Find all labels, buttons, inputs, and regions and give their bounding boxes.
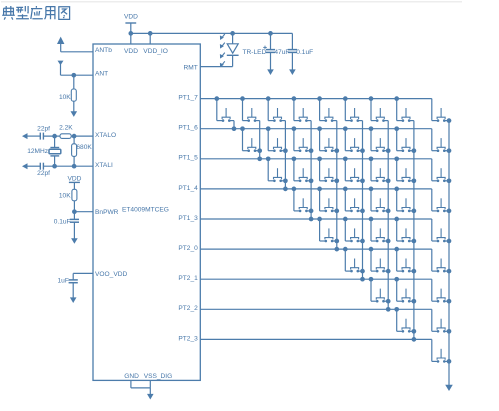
resistor R 680K [72, 134, 77, 169]
svg-text:PT1_6: PT1_6 [178, 125, 198, 132]
switch PT1_3 to common column [432, 228, 449, 242]
wire VDD_IO pin stub [149, 33, 151, 44]
switch PT1_3 to PT2_0 [317, 217, 337, 243]
switch PT1_5 to PT2_3 [394, 156, 414, 182]
svg-text:XTALI: XTALI [95, 162, 113, 169]
wire ANT [61, 74, 94, 76]
switch PT1_6 to common column [432, 138, 449, 152]
switch PT1_6 to PT1_3 [292, 126, 312, 152]
svg-text:ET4009MTCEG: ET4009MTCEG [122, 207, 169, 214]
wire row PT2_2 [200, 309, 431, 331]
svg-text:VOO_VDD: VOO_VDD [95, 271, 127, 278]
switch PT1_5 to PT2_2 [369, 156, 389, 182]
capacitor C 1uF [69, 280, 78, 303]
wire BnPWR [72, 201, 93, 220]
ground wires GND VSS_DIG [131, 380, 154, 399]
switch PT1_4 to PT2_2 [369, 187, 389, 213]
faint page top edge line [1, 1, 462, 3]
capacitor C 0.1uF top [288, 33, 297, 75]
wire ANTb [61, 51, 93, 53]
svg-text:XTALO: XTALO [95, 132, 116, 139]
switch PT1_7 to PT2_3 [394, 96, 414, 122]
wire common ground column [445, 118, 453, 391]
wire row PT1_4 [200, 189, 431, 211]
svg-text:10K: 10K [59, 94, 71, 101]
title text 典型应用图 drawn as strokes [2, 6, 69, 20]
switch PT1_4 to PT2_0 [317, 187, 337, 213]
svg-text:47uF: 47uF [274, 49, 289, 56]
switch PT2_0 to PT2_3 [394, 247, 414, 273]
svg-text:ANT: ANT [95, 71, 108, 78]
crystal X1 12MHz [49, 134, 61, 169]
switch PT1_5 to PT2_1 [343, 156, 363, 182]
svg-text:PT1_4: PT1_4 [178, 185, 198, 192]
svg-text:10K: 10K [59, 192, 71, 199]
svg-text:0.1uF: 0.1uF [54, 219, 71, 226]
switch PT1_4 to PT1_3 [292, 187, 312, 213]
svg-text:22pf: 22pf [37, 125, 50, 132]
svg-text:PT2_0: PT2_0 [178, 245, 198, 252]
wire column to PT1_4 [283, 121, 288, 192]
svg-text:PT2_3: PT2_3 [178, 335, 198, 342]
switch PT1_7 to PT1_3 [292, 96, 312, 122]
svg-text:BnPWR: BnPWR [95, 209, 119, 216]
wire column to PT1_5 [257, 121, 262, 162]
svg-text:22pf: 22pf [37, 170, 50, 177]
switch PT1_7 to PT2_2 [369, 96, 389, 122]
switch PT2_0 to common column [432, 259, 449, 273]
svg-text:VDD: VDD [124, 48, 138, 55]
wire column to PT2_0 [334, 121, 339, 252]
antenna stub ANT [58, 61, 64, 76]
capacitor C 22pf on XTALO [40, 133, 43, 140]
wire XTALO [22, 133, 93, 139]
switch PT1_4 to PT2_1 [343, 187, 363, 213]
switch PT1_6 to PT1_5 [240, 126, 260, 152]
svg-text:PT1_3: PT1_3 [178, 215, 198, 222]
svg-text:PT1_7: PT1_7 [178, 95, 198, 102]
svg-text:VSS_DIG: VSS_DIG [144, 373, 173, 380]
switch PT1_6 to PT1_4 [266, 126, 286, 152]
switch PT1_6 to PT2_1 [343, 126, 363, 152]
switch PT1_7 to PT1_5 [240, 96, 260, 122]
switch PT2_1 to PT2_2 [369, 277, 389, 303]
svg-text:1uF: 1uF [58, 277, 69, 284]
capacitor C 0.1uF BnPWR [70, 219, 79, 243]
switch PT1_3 to PT2_2 [369, 217, 389, 243]
svg-text:VDD: VDD [67, 176, 81, 183]
wire column to PT2_2 [386, 121, 391, 312]
wire row PT2_3 [200, 339, 431, 361]
wire column to PT2_3 [412, 121, 417, 342]
resistor R 10K on ANT [71, 73, 78, 117]
svg-text:PT2_2: PT2_2 [178, 305, 198, 312]
wire VOO_VDD [73, 273, 93, 280]
svg-text:12MHz: 12MHz [27, 148, 48, 155]
wire row PT1_7 [200, 99, 431, 121]
switch PT1_4 to PT2_3 [394, 187, 414, 213]
svg-text:0.1uF: 0.1uF [296, 49, 313, 56]
svg-text:680K: 680K [76, 144, 92, 151]
switch PT1_6 to PT2_0 [317, 126, 337, 152]
resistor R 10K BnPWR [72, 189, 77, 201]
switch PT2_1 to common column [432, 289, 449, 303]
svg-text:ANTb: ANTb [95, 47, 112, 54]
svg-text:PT1_5: PT1_5 [178, 155, 198, 162]
svg-text:VDD: VDD [124, 14, 138, 21]
switch PT1_6 to PT2_2 [369, 126, 389, 152]
switch PT1_6 to PT2_3 [394, 126, 414, 152]
op IC U1 ET4009MTCEG body [93, 44, 200, 380]
wire column to PT2_1 [360, 121, 365, 282]
wire column to PT1_6 [232, 121, 237, 131]
wire VDD rail [131, 32, 293, 34]
switch PT1_5 to PT1_4 [266, 156, 286, 182]
svg-text:RMT: RMT [184, 64, 198, 71]
switch PT2_3 to common column [432, 349, 449, 363]
TR-LED emission arrows [220, 34, 225, 67]
wire row PT1_5 [200, 159, 431, 181]
svg-text:2.2K: 2.2K [59, 125, 73, 132]
switch PT1_7 to PT2_0 [317, 96, 337, 122]
capacitor C 47uF [263, 31, 275, 75]
switch PT1_3 to PT2_1 [343, 217, 363, 243]
switch PT1_5 to PT1_3 [292, 156, 312, 182]
switch PT1_5 to common column [432, 168, 449, 182]
switch PT1_7 to PT1_6 [214, 96, 234, 122]
switch PT2_2 to common column [432, 319, 449, 333]
switch PT2_2 to PT2_3 [394, 307, 414, 333]
switch PT2_1 to PT2_3 [394, 277, 414, 303]
wire RMT to TR-LED [200, 66, 232, 68]
switch PT1_7 to common column [432, 108, 449, 122]
power VDD symbol BnPWR [67, 176, 81, 190]
wire VDD pin stub [130, 33, 132, 44]
wire row PT1_3 [200, 219, 431, 241]
svg-text:PT2_1: PT2_1 [178, 275, 198, 282]
diode TR-LED (IR emitter) [227, 31, 239, 67]
wire XTALI [22, 163, 93, 169]
antenna arrow ANTb [57, 37, 64, 52]
svg-text:VDD_IO: VDD_IO [143, 48, 168, 55]
wire row PT2_1 [200, 279, 431, 301]
switch PT2_0 to PT2_1 [343, 247, 363, 273]
switch PT1_5 to PT2_0 [317, 156, 337, 182]
wire row PT1_6 [200, 129, 431, 151]
switch PT1_3 to PT2_3 [394, 217, 414, 243]
switch PT2_0 to PT2_2 [369, 247, 389, 273]
capacitor C 22pf on XTALI [40, 163, 43, 170]
switch PT1_7 to PT1_4 [266, 96, 286, 122]
svg-text:GND: GND [124, 373, 139, 380]
switch PT1_7 to PT2_1 [343, 96, 363, 122]
wire column to PT1_3 [309, 121, 314, 222]
resistor R 2.2K [60, 134, 71, 139]
switch PT1_4 to common column [432, 198, 449, 212]
wire row PT2_0 [200, 249, 431, 271]
svg-text:TR-LED: TR-LED [243, 49, 267, 56]
